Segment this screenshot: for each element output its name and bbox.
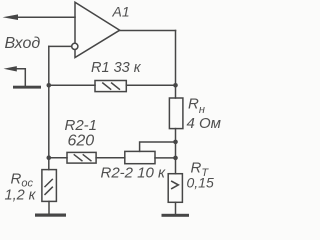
wire: feedback vertical line: [48, 46, 50, 169]
wire: R1 right to output node: [126, 84, 175, 86]
wire: inverting input horizontal: [49, 45, 72, 47]
svg-text:620: 620: [68, 133, 95, 150]
svg-text:R2-1: R2-1: [65, 117, 98, 134]
svg-text:1,2 к: 1,2 к: [5, 187, 37, 203]
node: tap junction: [173, 140, 178, 145]
ground bar under Rt: [162, 214, 190, 217]
wire: op-amp output horizontal: [120, 30, 176, 32]
wire: node to R1 left: [49, 84, 95, 86]
resistor R2-2 body: [125, 151, 155, 163]
wire: Rt to ground: [175, 202, 177, 214]
node: output / R1 junction: [173, 83, 178, 88]
input terminal arrow (signal): [3, 14, 19, 20]
resistor Rt body: [168, 174, 182, 203]
resistor Ros body: [42, 170, 57, 202]
svg-text:А1: А1: [112, 4, 130, 20]
resistor Rt chevron mark: [172, 181, 179, 188]
resistor R1 power marks: [103, 83, 120, 89]
svg-text:Вход: Вход: [5, 35, 41, 52]
node: feedback / R2-1 junction: [47, 155, 52, 160]
wire: Ros to ground: [48, 201, 50, 213]
svg-text:0,15: 0,15: [187, 175, 214, 191]
wire: output vertical to Rn: [175, 31, 177, 99]
op-amp U=A1 triangle: [75, 2, 120, 57]
node: inverting net / R1 junction: [47, 83, 52, 88]
resistor Ros power marks: [45, 179, 52, 194]
inversion circle at op-amp input: [72, 43, 78, 49]
svg-text:R2-2 10 к: R2-2 10 к: [101, 165, 167, 182]
resistor R1 body: [95, 81, 126, 92]
wire: Rn bottom to Rt: [175, 129, 177, 174]
wire: top input to op-amp non-inverting input: [16, 16, 75, 18]
wire: R2-2 right: [155, 157, 176, 159]
svg-text:R1 33 к: R1 33 к: [91, 60, 142, 76]
wire: R2-2 wiper tap: [140, 142, 176, 151]
resistor Rn body: [169, 98, 183, 129]
wire: R2-1 left: [49, 157, 67, 159]
input terminal arrow (common): [4, 66, 17, 71]
resistor R2-1 body: [67, 152, 96, 163]
resistor R2-1 power marks: [74, 155, 91, 161]
input common ground bar: [13, 86, 41, 89]
wire: R2-1 to R2-2: [96, 157, 125, 159]
svg-text:4 Ом: 4 Ом: [187, 115, 221, 132]
ground bar under Ros: [35, 214, 66, 217]
node: R2-2 right junction: [173, 156, 178, 161]
wire: common arrow to input ground: [15, 69, 25, 86]
